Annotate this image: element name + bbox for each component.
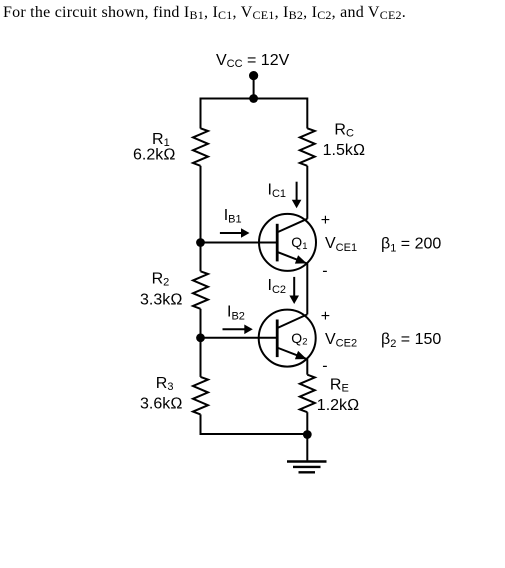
VCC terminal dot [249, 71, 258, 80]
svg-text:VCC = 12V: VCC = 12V [216, 52, 290, 70]
label minus VCE1 [322, 263, 327, 280]
label IB1 [224, 207, 242, 226]
svg-text:IB1: IB1 [224, 207, 242, 226]
node B dot (Q2 base node) [196, 333, 205, 342]
label beta2 = 150 [381, 331, 441, 350]
wire Q1 emitter to Q2 collector [306, 263, 308, 314]
transistor Q2 collector line [278, 314, 307, 327]
ground node dot [303, 430, 312, 439]
wire R2 to node B [200, 309, 202, 338]
label VCE2 [325, 331, 357, 350]
transistor Q2 circle [259, 310, 316, 367]
label IB2 [227, 304, 245, 323]
svg-text:3.6kΩ: 3.6kΩ [140, 395, 183, 412]
svg-text:IC1: IC1 [268, 181, 287, 200]
svg-text:R3: R3 [156, 375, 174, 393]
arrow IC2 [289, 277, 299, 304]
resistor R3 [193, 377, 208, 415]
wire RC to Q1 collector [306, 166, 308, 219]
svg-text:RE: RE [330, 377, 349, 395]
resistor RC [300, 128, 315, 166]
title text [3, 4, 406, 22]
wire R1 to node A [200, 166, 202, 243]
label Q1 [291, 234, 307, 252]
wire VCC stub [253, 76, 255, 99]
label plus VCE1 [321, 212, 330, 229]
wire top rail with corner drops [201, 99, 308, 129]
svg-text:-: - [322, 357, 327, 374]
resistor RE [300, 375, 315, 413]
transistor Q1 base bar [276, 224, 279, 262]
junction dot at top rail [249, 94, 258, 103]
wire Q2 emitter to RE [306, 359, 308, 375]
label minus VCE2 [322, 357, 327, 374]
svg-text:VCE1: VCE1 [325, 235, 357, 254]
label R2 [152, 270, 170, 288]
wire base 2 [201, 337, 278, 339]
label VCE1 [325, 235, 357, 254]
wire node B to R3 [200, 338, 202, 377]
svg-text:+: + [321, 308, 330, 325]
svg-text:R2: R2 [152, 270, 170, 288]
arrow IB1 [220, 228, 250, 238]
wire node A to R2 [200, 243, 202, 272]
transistor Q2 base bar [276, 320, 279, 358]
svg-text:β1 = 200: β1 = 200 [381, 236, 441, 255]
svg-text:RC: RC [334, 122, 354, 140]
label beta1 = 200 [381, 236, 441, 255]
svg-text:β2 = 150: β2 = 150 [381, 331, 441, 350]
wire bottom rail [201, 414, 308, 434]
label Q2 [291, 330, 307, 348]
arrow IC1 [292, 182, 302, 209]
label 3.6k ohm [140, 395, 183, 412]
transistor Q1 collector line [278, 219, 307, 232]
label RC [334, 122, 354, 140]
ground symbol [287, 462, 327, 473]
svg-text:-: - [322, 263, 327, 280]
resistor R1 [193, 128, 208, 166]
svg-text:IC2: IC2 [268, 277, 287, 296]
label IC1 [268, 181, 287, 200]
label IC2 [268, 277, 287, 296]
arrow IB2 [223, 325, 253, 335]
svg-text:Q1: Q1 [291, 234, 307, 252]
label 6.2k ohm [133, 147, 176, 164]
label 1.5k ohm [323, 142, 366, 159]
svg-text:3.3kΩ: 3.3kΩ [140, 292, 183, 309]
label VCC = 12V [216, 52, 290, 70]
transistor Q1 circle [259, 214, 316, 271]
label R3 [156, 375, 174, 393]
resistor R2 [193, 271, 208, 309]
svg-text:1.5kΩ: 1.5kΩ [323, 142, 366, 159]
wire ground stub [306, 435, 308, 461]
svg-text:6.2kΩ: 6.2kΩ [133, 147, 176, 164]
label 3.3k ohm [140, 292, 183, 309]
transistor Q1 emitter arrowhead [295, 255, 307, 263]
svg-text:Q2: Q2 [291, 330, 307, 348]
wire base 1 [201, 242, 278, 244]
label plus VCE2 [321, 308, 330, 325]
label RE [330, 377, 349, 395]
svg-text:IB2: IB2 [227, 304, 245, 323]
node A dot (Q1 base node) [196, 238, 205, 247]
transistor Q2 emitter line [278, 348, 307, 359]
svg-text:1.2kΩ: 1.2kΩ [317, 397, 360, 414]
svg-text:VCE2: VCE2 [325, 331, 357, 350]
label R1 [152, 131, 170, 149]
label 1.2k ohm [317, 397, 360, 414]
wire RE to ground node [306, 412, 308, 434]
transistor Q2 emitter arrowhead [295, 351, 307, 359]
svg-text:+: + [321, 212, 330, 229]
transistor Q1 emitter line [278, 252, 307, 263]
